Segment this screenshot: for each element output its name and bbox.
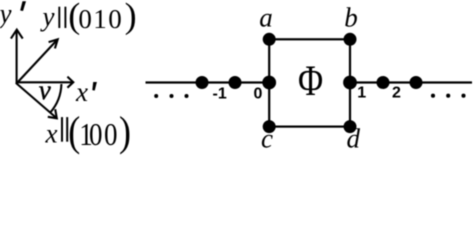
svg-text:Φ: Φ — [298, 57, 323, 105]
svg-text:c: c — [261, 124, 273, 154]
svg-text:x: x — [75, 77, 88, 107]
svg-text:): ) — [119, 108, 131, 155]
svg-text:1: 1 — [357, 85, 366, 102]
svg-text:ν: ν — [39, 75, 51, 105]
svg-text:2: 2 — [392, 85, 401, 102]
svg-text:a: a — [259, 3, 273, 33]
svg-text:x: x — [45, 119, 58, 149]
svg-text:010: 010 — [78, 4, 121, 34]
svg-text:b: b — [344, 3, 358, 33]
svg-text:y: y — [40, 1, 55, 31]
svg-text:d: d — [347, 124, 361, 154]
svg-text:y: y — [0, 0, 12, 28]
svg-text:100: 100 — [79, 118, 117, 153]
svg-text:): ) — [125, 0, 137, 36]
svg-text:-1: -1 — [213, 86, 227, 103]
svg-text:0: 0 — [254, 86, 263, 103]
